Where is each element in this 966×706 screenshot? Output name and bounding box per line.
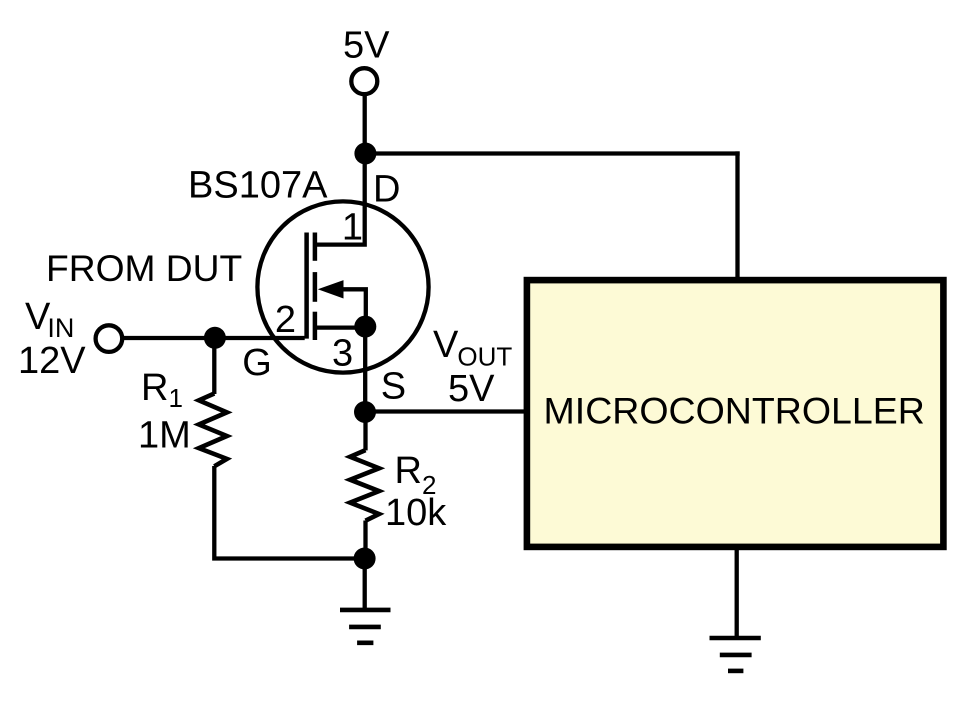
transistor gate bar <box>304 233 309 339</box>
transistor channel segment middle <box>313 272 318 302</box>
transistor body arrow <box>318 280 344 298</box>
svg-text:S: S <box>381 366 406 408</box>
transistor source stub <box>317 325 365 329</box>
node G junction <box>204 327 226 349</box>
svg-text:G: G <box>242 342 272 384</box>
VIN terminal <box>96 325 123 352</box>
wire 5V rail horizontal to microcontroller corner <box>365 151 740 155</box>
svg-text:1M: 1M <box>138 415 191 457</box>
transistor channel segment top <box>313 233 318 261</box>
wire source down to node S <box>363 327 367 412</box>
svg-text:FROM DUT: FROM DUT <box>46 247 242 289</box>
transistor body stub to source <box>334 289 366 326</box>
svg-text:BS107A: BS107A <box>188 165 328 207</box>
svg-text:MICROCONTROLLER: MICROCONTROLLER <box>544 390 925 432</box>
wire node S down to R2 <box>363 412 367 450</box>
node 5V rail junction <box>354 143 376 165</box>
wire R2 bottom to ground node <box>363 521 367 559</box>
wire rail corner down into microcontroller top <box>735 151 739 277</box>
wire microcontroller bottom to ground symbol <box>735 548 739 636</box>
wire ground node to ground symbol <box>363 559 367 609</box>
ground (left, below R2) <box>340 610 391 643</box>
svg-text:5V: 5V <box>448 368 495 410</box>
svg-text:2: 2 <box>275 299 296 341</box>
wire node G down to R1 <box>212 338 216 394</box>
wire 5V terminal to rail node <box>363 95 367 154</box>
wire VOUT from node S to microcontroller <box>365 409 525 413</box>
microcontroller U1 box <box>527 280 944 547</box>
resistor R2 zigzag <box>350 450 379 521</box>
transistor Q1 BS107A body circle <box>257 201 428 372</box>
5V supply terminal <box>351 68 377 94</box>
node S junction <box>354 401 376 423</box>
node ground junction <box>354 548 376 570</box>
wire drain: node down into transistor and stub to channel <box>313 154 365 245</box>
ground (right, below microcontroller) <box>710 638 761 671</box>
svg-text:5V: 5V <box>343 25 390 67</box>
svg-text:12V: 12V <box>18 340 86 382</box>
node source junction inside transistor <box>354 316 376 338</box>
wire gate from VIN terminal to gate bar <box>124 336 305 340</box>
svg-text:1: 1 <box>342 207 363 249</box>
svg-text:D: D <box>373 169 400 211</box>
wire R1 bottom down and right to ground node <box>214 466 364 559</box>
resistor R1 zigzag <box>199 394 227 467</box>
svg-text:10k: 10k <box>385 492 447 534</box>
svg-text:3: 3 <box>332 333 353 375</box>
transistor channel segment bottom <box>313 312 318 340</box>
